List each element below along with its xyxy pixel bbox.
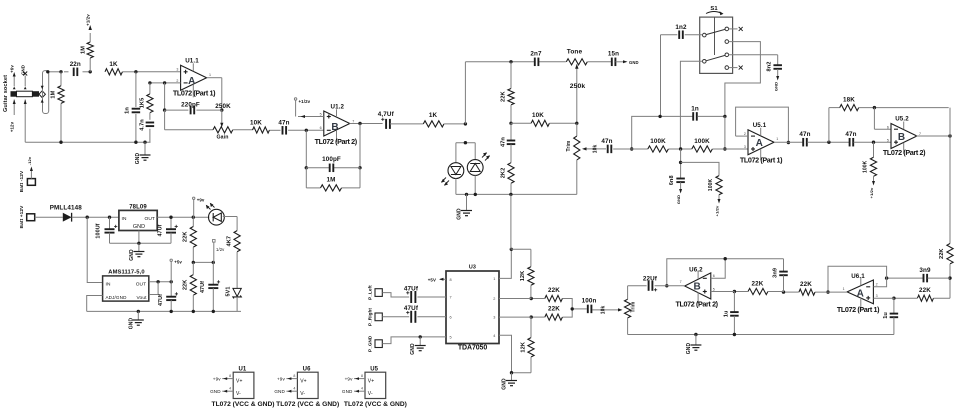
- svg-text:U1: U1: [238, 367, 246, 373]
- svg-text:GND: GND: [133, 224, 145, 230]
- capacitor 3n9 second filter: [885, 267, 950, 282]
- svg-text:10K: 10K: [532, 112, 544, 119]
- svg-text:12K: 12K: [520, 271, 526, 282]
- wire 4.7Uf to 1K: [390, 123, 424, 125]
- resistor 22K sallen first: [733, 280, 784, 294]
- potentiometer Trim 10k lower: [592, 286, 636, 335]
- wire feedback left leg: [163, 83, 213, 130]
- switch throw 1 nc x: [729, 27, 743, 31]
- svg-text:100pF: 100pF: [322, 156, 341, 163]
- op-amp U6.2 TL072 (Part 2) mirrored: [675, 266, 718, 308]
- svg-text:47n: 47n: [799, 131, 810, 138]
- connector P_Left: [367, 285, 382, 300]
- svg-text:47n: 47n: [500, 137, 506, 147]
- ground GND 78L09: [129, 243, 145, 260]
- svg-text:+1/2v: +1/2v: [715, 205, 720, 216]
- capacitor 3n9 sallen: [773, 259, 788, 292]
- svg-text:5: 5: [713, 287, 715, 291]
- svg-text:GND: GND: [21, 65, 26, 75]
- capacitor 47n to filter: [601, 138, 612, 153]
- resistor 22K left ch: [530, 287, 563, 302]
- svg-text:A: A: [188, 76, 195, 87]
- svg-text:Guitar socket: Guitar socket: [3, 75, 9, 112]
- svg-text:6: 6: [320, 126, 322, 130]
- svg-text:+6v: +6v: [10, 65, 15, 73]
- svg-text:6n8: 6n8: [669, 175, 675, 185]
- svg-text:+9v: +9v: [213, 377, 221, 382]
- capacitor 47Uf 5v rail: [158, 282, 178, 312]
- svg-text:1M: 1M: [327, 177, 336, 184]
- wire input node top: [48, 71, 181, 73]
- svg-text:U5.2: U5.2: [895, 116, 909, 123]
- flag -12v: [27, 156, 33, 178]
- capacitor 4.7n: [139, 113, 154, 143]
- svg-text:78L09: 78L09: [129, 204, 147, 210]
- flag +1/2v below 100K: [715, 195, 721, 217]
- svg-text:V+: V+: [236, 379, 243, 385]
- svg-text:1: 1: [493, 277, 495, 281]
- capacitor 4.7Uf coupling: [378, 111, 395, 129]
- svg-text:8: 8: [293, 374, 295, 378]
- wire U6.1 output: [815, 291, 847, 293]
- wire U5.2 output to right column: [916, 108, 951, 138]
- svg-text:22Uf: 22Uf: [643, 275, 658, 282]
- capacitor 47n post U5.1: [799, 131, 810, 146]
- ground bus left: [25, 141, 150, 144]
- flag +1/2v to U1.2 non-inverting: [294, 98, 323, 118]
- capacitor 1u shunt left: [723, 292, 738, 335]
- svg-text:+9v: +9v: [277, 377, 285, 382]
- svg-text:GND: GND: [342, 389, 353, 394]
- capacitor 1n2 bright: [661, 24, 703, 39]
- resistor 22K sallen second: [782, 281, 815, 295]
- wire ADJ to gnd bus: [87, 296, 103, 312]
- capacitor 47n chain: [500, 123, 515, 162]
- svg-text:6: 6: [713, 274, 715, 278]
- svg-text:TL072 (Part 2): TL072 (Part 2): [315, 137, 358, 146]
- svg-text:8: 8: [229, 374, 231, 378]
- svg-text:4: 4: [493, 334, 495, 338]
- zener 5V1: [226, 287, 242, 312]
- capacitor 22Uf output: [643, 275, 658, 291]
- svg-text:TL072 (Part 2): TL072 (Part 2): [675, 300, 718, 309]
- svg-text:5V1: 5V1: [226, 287, 232, 297]
- connector Batt +12V: [19, 205, 35, 229]
- svg-text:22K: 22K: [752, 280, 764, 287]
- svg-text:1K: 1K: [109, 61, 118, 68]
- wire LED top bus: [456, 141, 475, 144]
- resistor 100K bias U5.2: [863, 142, 877, 176]
- jack sleeve flag +12v: [10, 100, 16, 133]
- potentiometer Gain 250K: [213, 110, 233, 140]
- svg-text:ADJ/GND: ADJ/GND: [106, 295, 128, 300]
- svg-text:22K: 22K: [548, 287, 560, 294]
- node junction dots input: [46, 70, 137, 73]
- capacitor 47Uf half rail: [200, 262, 220, 311]
- svg-text:A: A: [857, 288, 864, 299]
- wire 9v rail: [157, 216, 209, 219]
- resistor 12K lower: [520, 317, 534, 373]
- IC U1 power block: [210, 367, 254, 399]
- flag +5v: [170, 259, 182, 282]
- svg-text:A: A: [756, 138, 763, 149]
- svg-text:+1/2v: +1/2v: [86, 14, 91, 26]
- svg-text:TL072 (Part 1): TL072 (Part 1): [837, 305, 880, 314]
- ground GND power bus: [128, 311, 144, 329]
- svg-text:22n: 22n: [70, 61, 81, 68]
- wire sleeve to ground bus: [24, 100, 27, 143]
- resistor 100K second: [692, 138, 713, 152]
- capacitor 8n2: [729, 55, 782, 72]
- resistor 1K input: [105, 61, 122, 75]
- resistor 22K divider top: [183, 217, 197, 262]
- LED D3 power: [206, 203, 225, 225]
- svg-text:TL072 (Part 2): TL072 (Part 2): [883, 148, 926, 157]
- LED D1 clip left: [441, 143, 464, 195]
- wire 22Uf to trim: [628, 285, 647, 287]
- svg-text:6: 6: [450, 315, 452, 319]
- svg-text:22K: 22K: [939, 248, 945, 259]
- svg-text:GND: GND: [274, 389, 285, 394]
- svg-text:1K: 1K: [429, 112, 438, 119]
- wire switch pole2 down: [680, 61, 702, 149]
- jack tip flag GND with x: [21, 65, 28, 86]
- wire right column down: [949, 136, 951, 244]
- svg-text:TL072 (Part 1): TL072 (Part 1): [173, 89, 216, 98]
- svg-text:GND: GND: [128, 318, 134, 330]
- svg-text:Batt +12V: Batt +12V: [19, 205, 25, 229]
- svg-text:B: B: [694, 281, 701, 292]
- svg-text:5: 5: [320, 112, 322, 116]
- wire U6.2 output: [655, 285, 685, 287]
- wire 47n to U1.2: [288, 129, 324, 132]
- svg-text:1: 1: [209, 73, 211, 77]
- svg-text:Gain: Gain: [216, 135, 228, 141]
- svg-text:22K: 22K: [548, 306, 560, 313]
- capacitor 220pF: [165, 102, 222, 115]
- wire LED bottom bus: [456, 193, 577, 196]
- wire 47n to U5.2: [854, 141, 891, 144]
- svg-text:GND: GND: [129, 249, 135, 261]
- svg-text:GND: GND: [210, 389, 221, 394]
- wire output gnd bus: [628, 333, 894, 336]
- svg-text:47n: 47n: [601, 138, 612, 145]
- wire 1K to LED node: [444, 122, 467, 125]
- svg-text:TL072 (VCC & GND): TL072 (VCC & GND): [344, 401, 407, 408]
- wire U1.1 output to feedback: [207, 78, 224, 112]
- resistor 100K first: [648, 138, 669, 152]
- IC U3 TDA7050: [446, 265, 499, 352]
- flag GND below 8n2: [773, 69, 779, 91]
- svg-text:U6: U6: [303, 367, 311, 373]
- svg-text:1M: 1M: [51, 90, 57, 98]
- svg-text:1n: 1n: [691, 106, 699, 113]
- svg-text:100Uf: 100Uf: [96, 223, 102, 238]
- flag +5V to pin 8: [428, 277, 446, 282]
- svg-text:6: 6: [887, 125, 889, 129]
- wire AMS out: [149, 280, 173, 294]
- capacitor 2n7: [530, 50, 542, 66]
- svg-text:+1/2v: +1/2v: [869, 187, 874, 198]
- svg-text:3: 3: [744, 145, 746, 149]
- wire 22K join to 100n: [562, 299, 574, 318]
- svg-text:GND: GND: [676, 195, 681, 204]
- wire U1.2 output: [350, 122, 383, 125]
- svg-text:22K: 22K: [800, 281, 812, 288]
- svg-text:U1.1: U1.1: [185, 58, 199, 65]
- wire batt to diode: [35, 216, 63, 218]
- potentiometer Trim 10k upper: [566, 123, 606, 194]
- svg-text:3: 3: [876, 294, 878, 298]
- wire LED to 4K7: [223, 217, 237, 231]
- svg-text:U5.1: U5.1: [753, 122, 767, 129]
- svg-text:GND: GND: [686, 343, 692, 355]
- svg-text:1/2v: 1/2v: [216, 247, 225, 252]
- svg-text:1n2: 1n2: [675, 24, 687, 31]
- resistor 18K feedback U5.2: [829, 97, 949, 143]
- svg-text:22K: 22K: [183, 280, 189, 291]
- wire P_GND to pin 5: [382, 335, 446, 343]
- svg-text:GND: GND: [457, 208, 463, 220]
- svg-text:18K: 18K: [843, 97, 855, 104]
- capacitor 100n: [572, 298, 596, 314]
- svg-text:47Uf: 47Uf: [200, 281, 206, 293]
- resistor 1M feedback: [306, 168, 360, 191]
- svg-text:100K: 100K: [650, 138, 666, 145]
- svg-text:-12v: -12v: [27, 156, 32, 165]
- svg-text:1: 1: [776, 137, 778, 141]
- svg-text:4: 4: [361, 387, 363, 391]
- svg-text:V-: V-: [236, 391, 241, 397]
- svg-text:22K: 22K: [183, 232, 189, 243]
- svg-text:V+: V+: [368, 379, 375, 385]
- svg-text:GND: GND: [629, 60, 639, 65]
- wire tone to 15n: [587, 61, 611, 63]
- svg-text:7: 7: [919, 132, 921, 136]
- svg-text:IN: IN: [106, 282, 111, 288]
- svg-text:47n: 47n: [845, 131, 856, 138]
- svg-text:Trim: Trim: [566, 140, 572, 151]
- svg-text:10k: 10k: [593, 144, 599, 153]
- switch S1 DPDT: [700, 6, 733, 73]
- svg-text:+9v: +9v: [345, 377, 353, 382]
- jack ring flag +6v: [10, 65, 16, 87]
- svg-text:V-: V-: [368, 391, 373, 397]
- resistor 22K chain top: [500, 62, 514, 124]
- svg-text:TL072 (VCC & GND): TL072 (VCC & GND): [212, 401, 275, 408]
- svg-text:P_Right: P_Right: [367, 308, 372, 326]
- capacitor 22n: [70, 61, 81, 76]
- wire U6.2 non-inverting: [711, 291, 735, 293]
- wire main filter line: [613, 147, 748, 150]
- wire U3 pin3: [499, 316, 531, 318]
- wire 1n2 down leg: [660, 35, 662, 117]
- svg-text:3n9: 3n9: [919, 267, 931, 274]
- svg-text:15n: 15n: [608, 50, 619, 57]
- LED D2 clip right: [467, 143, 490, 195]
- resistor 22K right column: [939, 244, 953, 299]
- label TL072 VCC GND 3: [344, 401, 407, 408]
- wire U6.1 feedback loop: [826, 266, 886, 294]
- svg-text:GND: GND: [410, 343, 416, 355]
- svg-text:1n: 1n: [125, 107, 131, 114]
- svg-text:OUT: OUT: [145, 216, 156, 222]
- resistor 1K mid: [423, 112, 444, 127]
- svg-text:TL072 (VCC & GND): TL072 (VCC & GND): [276, 401, 339, 408]
- svg-text:4,7Uf: 4,7Uf: [378, 111, 395, 118]
- op-amp U6.1 TL072 (Part 1) mirrored: [837, 273, 880, 314]
- svg-text:V+: V+: [300, 379, 307, 385]
- svg-text:V-: V-: [300, 391, 305, 397]
- wire U6.2 feedback loop: [665, 257, 783, 287]
- capacitor 47n second: [845, 131, 856, 146]
- capacitor 15n: [608, 50, 619, 66]
- svg-text:P_GND: P_GND: [367, 335, 372, 352]
- svg-text:+12v: +12v: [10, 121, 15, 132]
- resistor 2K2 chain: [500, 163, 514, 195]
- resistor 4K7: [226, 231, 240, 289]
- svg-text:10K: 10K: [250, 120, 262, 127]
- resistor 100K bias leg: [681, 162, 723, 194]
- svg-text:8: 8: [450, 278, 452, 282]
- svg-text:100K: 100K: [708, 179, 714, 192]
- svg-text:B: B: [331, 122, 338, 133]
- svg-text:2: 2: [876, 283, 878, 287]
- svg-text:U5: U5: [370, 367, 378, 373]
- svg-text:2n7: 2n7: [530, 50, 542, 57]
- wire U5.1 feedback loop: [736, 107, 791, 144]
- svg-text:47Uf: 47Uf: [404, 305, 419, 312]
- ground GND output bus: [686, 335, 702, 355]
- svg-text:+1/2v: +1/2v: [299, 99, 311, 104]
- svg-text:5: 5: [887, 138, 889, 142]
- svg-text:22K: 22K: [500, 91, 506, 102]
- svg-text:4: 4: [229, 387, 231, 391]
- svg-text:GND: GND: [135, 153, 141, 165]
- svg-text:7: 7: [680, 280, 682, 284]
- wire U3 pin2: [499, 298, 531, 300]
- svg-text:3: 3: [493, 316, 495, 320]
- capacitor 6n8 shunt: [669, 149, 685, 185]
- guitar socket J1: [3, 71, 49, 114]
- wire +12 down to AMS IN: [87, 217, 102, 282]
- switch throw 4 nc x: [729, 66, 743, 70]
- capacitor 47n interstage: [278, 120, 289, 135]
- capacitor 1n input filter: [125, 72, 141, 142]
- wire riser to tone line: [464, 62, 466, 124]
- wire between 47n caps: [807, 141, 849, 144]
- resistor 10K to trim: [511, 112, 579, 126]
- svg-text:5: 5: [450, 336, 452, 340]
- svg-text:8n2: 8n2: [767, 62, 773, 72]
- svg-text:PMLL4148: PMLL4148: [50, 205, 82, 212]
- wire diode to regulators: [72, 216, 119, 219]
- capacitor 100Uf: [96, 217, 118, 243]
- wire 10K to 47n: [270, 129, 281, 131]
- capacitor 1u shunt right: [883, 298, 898, 334]
- svg-text:2: 2: [744, 132, 746, 136]
- svg-text:U3: U3: [469, 265, 476, 271]
- resistor 22K into U6.1: [892, 287, 950, 301]
- svg-text:1u: 1u: [883, 312, 889, 319]
- svg-text:GND: GND: [773, 82, 778, 91]
- svg-text:250K: 250K: [215, 103, 231, 110]
- wire U6.1 non-inverting: [873, 297, 894, 299]
- svg-text:B: B: [898, 132, 905, 143]
- svg-text:+5v: +5v: [174, 260, 182, 265]
- svg-text:7: 7: [450, 296, 452, 300]
- svg-text:22K: 22K: [919, 287, 931, 294]
- node chain mid: [509, 122, 512, 125]
- svg-text:OUT: OUT: [136, 282, 147, 288]
- svg-text:220pF: 220pF: [181, 102, 200, 109]
- svg-text:Batt -12V: Batt -12V: [19, 170, 25, 192]
- connector P_GND: [367, 335, 382, 352]
- svg-text:47n: 47n: [278, 120, 289, 127]
- op-amp U1.2 TL072 (Part 2): [315, 103, 358, 146]
- ground GND pin4: [502, 373, 518, 390]
- svg-text:GND: GND: [502, 378, 508, 390]
- wire LED bus down to pin1 node: [510, 194, 512, 249]
- connector P_Right: [367, 308, 382, 326]
- resistor 1M bias upper: [87, 33, 93, 72]
- capacitor 100pF feedback: [305, 124, 362, 173]
- svg-text:100K: 100K: [694, 138, 710, 145]
- wire 1n right leg to main: [723, 116, 726, 150]
- op-amp U5.1 TL072 (Part 1): [740, 122, 783, 164]
- svg-text:Trim: Trim: [631, 301, 637, 312]
- ground GND U3 input: [410, 337, 426, 355]
- svg-text:TDA7050: TDA7050: [458, 344, 487, 351]
- wire gain to 10K: [233, 129, 253, 131]
- svg-text:47Uf: 47Uf: [404, 285, 419, 292]
- ground GND input: [135, 142, 151, 164]
- flag GND below 6n8: [676, 182, 682, 204]
- svg-text:2: 2: [493, 297, 495, 301]
- ground GND LED bus: [457, 194, 473, 219]
- svg-text:2K2: 2K2: [500, 168, 506, 179]
- svg-text:10k: 10k: [601, 305, 607, 314]
- svg-text:1: 1: [843, 287, 845, 291]
- capacitor 47Uf 9v rail: [158, 217, 178, 243]
- svg-text:4: 4: [293, 387, 295, 391]
- svg-text:+9v: +9v: [197, 198, 205, 203]
- svg-text:4.7n: 4.7n: [139, 119, 145, 131]
- svg-text:TL072 (Part 1): TL072 (Part 1): [740, 155, 783, 164]
- wire tone line: [465, 60, 566, 63]
- wire U3 pin1 riser: [499, 248, 513, 279]
- wire U5.1 output: [774, 141, 803, 143]
- svg-text:7: 7: [352, 120, 354, 124]
- svg-text:2: 2: [176, 79, 178, 83]
- label TL072 VCC GND 2: [276, 401, 339, 408]
- label 250K: [215, 103, 231, 110]
- capacitor 47Uf right in: [382, 305, 446, 323]
- svg-text:1u: 1u: [723, 310, 729, 317]
- resistor 1M input load: [51, 72, 65, 142]
- svg-text:+5V: +5V: [428, 277, 436, 282]
- resistor 10K interstage: [250, 120, 269, 134]
- resistor 22K right ch: [530, 306, 563, 321]
- flag 1/2v: [213, 240, 226, 263]
- IC AMS1117-5.0: [103, 269, 149, 301]
- node half rail: [192, 261, 215, 264]
- flag GND tone out: [616, 60, 639, 65]
- svg-text:U1.2: U1.2: [331, 103, 345, 110]
- IC U5 power block: [342, 367, 386, 399]
- resistor 1K5 feedback divider: [139, 83, 153, 113]
- svg-text:47Uf: 47Uf: [158, 224, 164, 236]
